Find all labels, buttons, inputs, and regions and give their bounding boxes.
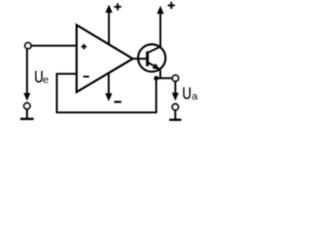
terminal output top — [172, 75, 178, 81]
wire emitter node to output terminal — [155, 77, 171, 79]
wire feedback bottom — [56, 111, 157, 113]
terminal output bottom — [172, 104, 178, 110]
wire feedback drop from node — [155, 78, 157, 112]
wire feedback left vertical — [56, 73, 58, 112]
collector supply arrow — [157, 6, 164, 48]
op-amp minus input label — [83, 76, 89, 78]
ground right — [169, 110, 181, 120]
plus label top left supply — [114, 3, 121, 10]
op-amp plus input label — [81, 44, 86, 49]
wire inverting input — [57, 73, 78, 75]
wire non-inverting input — [32, 45, 78, 47]
positive supply arrow of op-amp — [105, 5, 112, 45]
terminal input top — [25, 43, 31, 49]
transistor Q1 — [138, 44, 165, 78]
ground left — [20, 109, 33, 119]
minus label bottom supply — [114, 101, 121, 103]
svg-text:a: a — [192, 90, 198, 102]
op-amp U1 — [77, 25, 133, 92]
node emitter junction — [154, 76, 159, 81]
voltage arrow Ue — [24, 49, 31, 101]
svg-text:e: e — [43, 74, 49, 86]
svg-text:U: U — [182, 84, 191, 103]
negative supply arrow of op-amp — [105, 73, 112, 102]
plus label top right supply — [168, 2, 175, 9]
voltage arrow Ua — [172, 82, 179, 101]
terminal input bottom — [24, 103, 30, 109]
wire base (op-amp output to transistor) — [131, 58, 146, 60]
